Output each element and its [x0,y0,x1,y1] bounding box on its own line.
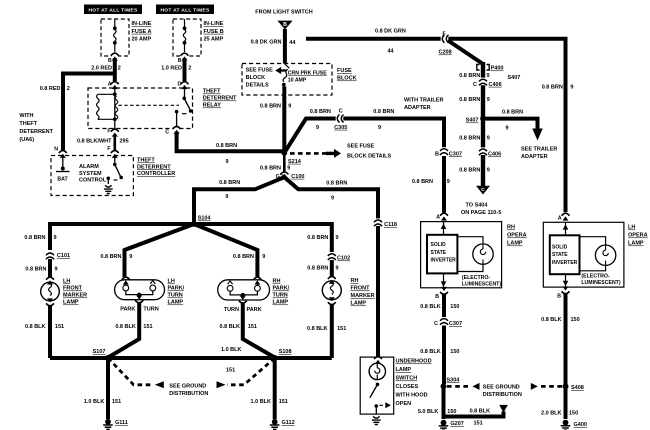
connector C100 grommet G2 [276,172,305,180]
svg-text:STATE: STATE [431,250,447,256]
svg-text:FROM LIGHT SWITCH: FROM LIGHT SWITCH [255,10,312,16]
svg-text:151: 151 [226,368,235,374]
svg-text:RH: RH [507,225,515,231]
svg-text:9: 9 [54,235,57,241]
connector C118 [374,218,397,228]
svg-text:0.8 BRN: 0.8 BRN [373,109,394,115]
label SEE FUSE BLOCK DETAILS (at S214) [347,144,392,160]
svg-text:0.8 BRN: 0.8 BRN [219,180,240,186]
svg-text:2: 2 [188,66,191,72]
svg-text:THEFT: THEFT [19,121,37,127]
svg-text:SWITCH: SWITCH [396,376,418,382]
svg-text:G112: G112 [282,420,295,426]
ground G400 [561,420,587,430]
svg-text:25 AMP: 25 AMP [204,37,224,43]
svg-text:9: 9 [55,267,58,273]
wire C100 right branch to C118 (0.8 BRN) [284,177,378,220]
crn prk fuse element in fuse block [282,64,289,87]
svg-text:2: 2 [67,86,70,92]
terminal bottom of RH park/turn [239,296,247,303]
svg-text:OPERA: OPERA [628,233,648,239]
label WITH THEFT DETERRENT (UA6) [19,113,53,143]
wire RH park/turn to S108 (0.8 BLK) [243,302,275,357]
svg-text:WITH HOOD: WITH HOOD [396,393,428,399]
label 0.8 BRN 9 (right edge run) [542,84,574,90]
wire C208 diagonal to P400 [448,41,483,65]
label 0.8 BRN 9 (C100 to C118) [326,180,347,201]
svg-text:ALARM: ALARM [79,164,99,170]
theft deterrent relay dashed box [88,88,193,129]
in-line fuse B dashed box [173,19,201,56]
battery feed BAT inside controller [56,156,70,183]
svg-text:B: B [435,151,439,157]
wire fuse B to node D (1.0 RED) [183,58,187,81]
svg-text:0.8 BRN: 0.8 BRN [233,254,254,260]
wire C307-B down to RH opera lamp A [442,156,446,213]
svg-text:C406: C406 [489,82,502,88]
svg-text:S107: S107 [93,349,106,355]
hot at all times box 1 [84,5,142,15]
svg-text:C100: C100 [291,174,304,180]
label SEE GROUND DISTRIBUTION (right) [483,385,522,399]
svg-text:9: 9 [129,254,132,260]
wire S104 to RH park/turn lamp (0.8 BRN) [194,224,257,277]
RH opera lamp box [421,222,502,288]
svg-text:CRN PRK FUSE: CRN PRK FUSE [288,70,327,76]
label PARK TURN (LH) [120,307,158,313]
svg-text:OPEN: OPEN [396,401,412,407]
LH opera feed arrow inside box [563,223,569,236]
svg-text:A: A [108,82,112,88]
svg-text:SEE FUSE: SEE FUSE [347,144,375,150]
wire G207 branch right (0.8 BLK 151) [444,412,504,417]
svg-text:151: 151 [55,324,64,330]
label 5.0 BLK 150 (S304 to G207) [418,409,457,415]
RH solid state inverter [427,235,457,274]
svg-text:C307: C307 [449,151,462,157]
terminal F of relay [107,129,118,137]
svg-text:9: 9 [225,194,228,200]
svg-text:LAMP: LAMP [507,241,523,247]
svg-text:A: A [558,216,562,222]
off-page arrow C to S404 [476,186,490,195]
svg-text:5.0 BLK: 5.0 BLK [418,409,439,415]
LH opera bottom arrow inside box [563,274,569,287]
svg-text:0.8 BRN: 0.8 BRN [459,135,480,141]
svg-text:LH: LH [168,279,175,285]
label 0.8 BLK 151 [25,324,64,330]
svg-text:INVERTER: INVERTER [431,258,457,264]
label 0.8 BLK 150 (B to C307) [420,304,459,310]
svg-text:9: 9 [487,73,490,79]
connector C101 [46,251,70,259]
label 0.8 RED 2 [40,86,70,92]
svg-text:2.0 RED: 2.0 RED [91,66,112,72]
label 0.8 BRN 9 (S407 branch) [502,110,523,132]
splice S407 [466,116,486,124]
svg-text:295: 295 [120,138,129,144]
svg-text:BLOCK DETAILS: BLOCK DETAILS [347,154,392,160]
wire S108 to G112 (1.0 BLK) [273,358,277,419]
svg-text:G207: G207 [450,421,463,427]
svg-text:9: 9 [487,135,490,141]
label 1.0 BLK 151 (S107 to G111) [84,399,121,405]
svg-text:THEFT: THEFT [203,89,221,95]
label TO S404 ON PAGE 110-5 [461,203,501,217]
svg-text:B: B [283,22,287,28]
svg-text:9: 9 [506,126,509,132]
in-line fuse B element [183,19,187,52]
wire LH front marker to ground bus (0.8 BLK) [48,305,52,358]
svg-text:UNDERHOOD: UNDERHOOD [396,359,432,365]
wire B to fuse block (0.8 DK GRN) [283,29,287,64]
svg-text:SEE GROUND: SEE GROUND [169,383,206,389]
label WITH TRAILER ADAPTER [404,98,443,112]
off-page arrow B from light switch [277,21,292,30]
svg-text:0.8 BLK: 0.8 BLK [420,349,441,355]
wire LH park/turn to S107 (0.8 BLK) [108,302,139,358]
wire RH opera B to C307-C (0.8 BLK) [442,294,446,319]
svg-text:S108: S108 [279,349,292,355]
ground G112 [270,419,295,430]
label 0.8 BLK 151 (LH park to S107) [115,324,152,330]
wire C102 to RH front marker (0.8 BRN) [330,260,334,277]
svg-text:C208: C208 [439,50,452,56]
svg-text:SEE TRAILER: SEE TRAILER [521,147,557,153]
svg-text:RH: RH [351,278,359,284]
wire S408 to G400 (2.0 BLK) [564,386,568,419]
label 0.8 BRN 9 (bus to C102) [307,235,338,241]
label CRN PRK FUSE 10 AMP [288,70,327,83]
svg-text:LAMP: LAMP [351,301,367,307]
label 0.8 BRN 9 (C101 to lamp) [25,267,57,273]
svg-text:C406: C406 [488,151,501,157]
svg-text:151: 151 [248,324,257,330]
connector C307 pin C [434,317,462,327]
svg-text:ADAPTER: ADAPTER [521,154,548,160]
svg-text:FRONT: FRONT [351,286,371,292]
wire S214 to C305 trailer branch (0.8 BRN) [284,119,444,153]
svg-text:IN-LINE: IN-LINE [132,21,152,27]
svg-text:S407: S407 [508,75,521,81]
svg-text:0.8 BRN: 0.8 BRN [459,168,480,174]
terminal A of LH opera lamp [558,213,570,221]
RH front marker lamp [322,281,341,300]
terminal N of controller [54,147,66,158]
svg-text:RH: RH [273,279,281,285]
svg-text:LAMP: LAMP [168,300,184,306]
label 0.8 BRN 9 (C102 to lamp) [307,265,338,271]
label 2.0 BLK 150 (S408 to G400) [541,411,578,417]
svg-text:44: 44 [289,40,296,46]
label 0.8 BRN 9 (relay C to S214) [216,143,237,165]
svg-text:PARK: PARK [120,307,135,313]
svg-text:0.8 BLK: 0.8 BLK [25,324,46,330]
svg-text:150: 150 [450,304,459,310]
label SEE FUSE BLOCK DETAILS (in box) [246,68,274,89]
relay coil [97,88,118,129]
relay actuation dashed link [119,104,180,106]
svg-text:0.8 BLK: 0.8 BLK [420,304,441,310]
svg-text:1.0 BLK: 1.0 BLK [251,399,272,405]
svg-text:0.8 BRN: 0.8 BRN [24,235,45,241]
svg-text:LH: LH [63,279,70,285]
label 0.8 BRN 9 (to RH park lamp) [233,254,265,260]
wire relay C to S214 (0.8 BRN) [177,132,285,152]
wire LH opera B to S408 (0.8 BLK) [564,293,568,384]
svg-text:B: B [178,58,182,64]
svg-text:B: B [557,294,561,300]
svg-text:C: C [481,187,485,193]
svg-text:D: D [178,82,182,88]
arrow to see fuse block details [275,67,286,74]
label in-line fuse B 25 amp [204,21,224,43]
svg-text:0.8 BRN: 0.8 BRN [412,179,433,185]
dashed arrow S108 to see ground distribution [217,358,275,388]
svg-text:G111: G111 [115,420,128,426]
svg-text:0.8 BRN: 0.8 BRN [100,254,121,260]
svg-text:C: C [434,321,438,327]
label THEFT DETERRENT RELAY [203,89,237,109]
svg-text:2: 2 [118,66,121,72]
label 0.8 BRN 9 (C406 to S404) [459,168,490,174]
svg-text:151: 151 [143,324,152,330]
svg-text:INVERTER: INVERTER [552,260,578,266]
label LH PARK TURN LAMP [168,279,185,306]
underhood lamp bulb [369,363,385,379]
svg-text:FRONT: FRONT [63,286,83,292]
svg-text:1.0 BLK: 1.0 BLK [221,347,242,353]
svg-text:9: 9 [226,159,229,165]
svg-text:LAMP: LAMP [63,300,79,306]
splice S108 [272,349,292,361]
svg-text:RELAY: RELAY [203,103,221,109]
svg-text:CONTROLLER: CONTROLLER [137,171,175,177]
label 0.8 BRN 9 (fuse block to S214) [260,104,291,110]
svg-text:TO S404: TO S404 [466,203,489,209]
svg-text:DETERRENT: DETERRENT [19,129,53,135]
label 0.8 BLK 150 (C307 to S304) [420,349,459,355]
svg-text:1.0 BLK: 1.0 BLK [84,399,105,405]
svg-text:TURN: TURN [224,307,239,313]
svg-text:0.8 BLK: 0.8 BLK [470,409,491,415]
connector P400 brackets [477,65,504,72]
svg-text:THEFT: THEFT [137,158,155,164]
svg-text:DETAILS: DETAILS [246,83,269,89]
splice S408 [563,383,584,391]
svg-text:44: 44 [388,49,395,55]
svg-text:151: 151 [279,399,288,405]
svg-text:C101: C101 [57,253,70,259]
svg-text:FUSE: FUSE [337,68,352,74]
underhood switch blade [370,383,391,415]
label 1.0 BLK 151 (S108 to G112) [251,399,288,405]
svg-text:FUSE A: FUSE A [132,29,152,35]
terminal top of LH front marker [46,277,54,284]
wire bus S104 left to LH marker drop [50,224,194,250]
svg-text:9: 9 [336,265,339,271]
svg-text:DETERRENT: DETERRENT [203,96,237,102]
label 0.8 BRN 9 (C406 to S407) [459,97,490,103]
label 0.8 BLK 150 (LH opera ground) [541,317,580,323]
splice S107 [93,349,111,361]
svg-text:C: C [473,82,477,88]
wire fuse block to S214 (0.8 BRN) [282,87,286,154]
svg-text:S104: S104 [198,216,212,222]
off-page arrow above branch [499,405,508,413]
label 0.8 BLK 151 (RH marker ground) [307,326,346,332]
svg-text:HOT AT ALL TIMES: HOT AT ALL TIMES [88,8,137,14]
label 0.8 BRN 9 (C307 to RH opera) [412,179,450,185]
relay switch [175,88,193,129]
svg-text:0.8 RED: 0.8 RED [40,86,61,92]
svg-text:HOT AT ALL TIMES: HOT AT ALL TIMES [160,8,209,14]
in-line fuse A element [113,19,117,52]
svg-text:0.8 BRN: 0.8 BRN [459,73,480,79]
label 0.8 BRN 9 (S407 to C406 lower) [459,135,490,141]
connector C102 [328,252,350,261]
svg-text:150: 150 [450,349,459,355]
wire S304 to G207 (5.0 BLK) [442,386,446,419]
svg-text:C: C [165,130,169,136]
svg-text:0.8 BLK: 0.8 BLK [115,324,136,330]
label 0.8 BRN 9 (S214 to C100) [260,165,290,171]
svg-text:9: 9 [336,235,339,241]
svg-text:N: N [54,147,58,153]
fuse A terminal B [108,53,119,64]
svg-text:ADAPTER: ADAPTER [404,105,431,111]
connector C307 pin B [435,147,462,157]
svg-text:S304: S304 [447,377,461,383]
svg-text:CONTROL: CONTROL [79,177,107,183]
svg-text:151: 151 [474,421,483,427]
RH electroluminescent lamp bulb [457,237,493,272]
svg-text:B: B [108,58,112,64]
svg-text:151: 151 [337,326,346,332]
svg-text:150: 150 [571,317,580,323]
wire S107 to G111 (1.0 BLK) [106,358,110,419]
LH electroluminescent lamp bulb [580,237,616,271]
svg-text:TURN: TURN [168,293,183,299]
wire bus S104 right to RH marker drop (0.8 BRN) [194,224,332,252]
underhood lamp switch box [360,357,394,414]
svg-text:C307: C307 [449,321,462,327]
fuse B terminal B [178,53,189,64]
wire C100 left branch to S104 (0.8 BRN) [194,177,284,222]
svg-text:MARKER: MARKER [351,293,375,299]
terminal B of RH opera lamp [435,287,448,300]
label SEE GROUND DISTRIBUTION (left) [169,383,208,397]
label RH OPERA LAMP [507,225,527,247]
svg-text:FUSE B: FUSE B [204,29,224,35]
svg-text:9: 9 [287,166,290,172]
svg-text:9: 9 [487,168,490,174]
svg-text:9: 9 [331,196,334,202]
label FUSE BLOCK [337,68,357,82]
alarm system control dashed box [51,156,133,196]
svg-text:SEE FUSE: SEE FUSE [246,68,274,74]
svg-text:9: 9 [316,125,319,131]
svg-text:WITH: WITH [19,113,33,119]
splice S304 [441,377,461,389]
ground symbol under underhood switch [372,416,381,424]
svg-text:CLOSES: CLOSES [396,384,419,390]
svg-text:B: B [435,294,439,300]
connector C406 pin C [473,78,502,88]
label (ELECTRO-LUMINESCENT) RH [462,275,501,288]
svg-text:0.8 BRN: 0.8 BRN [307,265,328,271]
wire ground bus S107 to S108 (1.0 BLK) [50,356,332,360]
label 2.0 RED 2 [91,66,121,72]
svg-text:0.8 BRN: 0.8 BRN [502,110,523,116]
svg-text:TURN: TURN [143,307,158,313]
svg-text:LUMINESCENT): LUMINESCENT) [581,280,620,286]
svg-text:LAMP: LAMP [396,367,412,373]
svg-text:A: A [436,215,440,221]
terminal C of relay [165,127,180,136]
terminal B of LH opera lamp [557,286,569,299]
label 1.0 RED 2 [161,66,191,72]
svg-text:9: 9 [378,125,381,131]
svg-text:DISTRIBUTION: DISTRIBUTION [169,391,208,397]
svg-text:150: 150 [447,409,456,415]
svg-text:BLOCK: BLOCK [337,76,357,82]
svg-text:S407: S407 [466,118,479,124]
svg-text:1.0 RED: 1.0 RED [161,66,182,72]
terminal F of controller [107,146,118,158]
svg-text:(UA6): (UA6) [19,137,34,143]
svg-text:0.8 BLK/WHT: 0.8 BLK/WHT [77,138,112,144]
label 1.0 BLK 151 (ground bus) [221,347,242,374]
svg-text:STATE: STATE [552,252,568,258]
svg-text:0.8 BRN: 0.8 BRN [307,235,328,241]
LH park/turn lamp assembly [115,277,165,299]
terminal top of underhood switch [374,357,382,364]
svg-text:2.0 BLK: 2.0 BLK [541,411,562,417]
label RH PARK TURN LAMP [273,279,290,306]
splice S214 [281,150,301,165]
svg-text:151: 151 [112,399,121,405]
wire relay F to controller F (0.8 BLK/WHT) [114,134,117,152]
svg-text:S214: S214 [288,159,302,165]
label LH FRONT MARKER LAMP [63,279,87,306]
label 0.8 DK GRN 44 (top run) [375,29,406,55]
wire C307-C to S304 (0.8 BLK) [442,326,446,385]
controller switch to ground [107,156,123,184]
label 0.8 BLK 151 (branch) [470,409,491,427]
wire S407 branch to trailer adapter arrow (0.8 BRN) [483,119,538,129]
svg-text:BLOCK: BLOCK [246,75,266,81]
svg-text:0.8 BRN: 0.8 BRN [216,143,237,149]
svg-text:SEE GROUND: SEE GROUND [483,385,520,391]
svg-text:LH: LH [628,225,635,231]
svg-text:9: 9 [447,179,450,185]
dashed arrow S214 to see fuse block details [290,149,341,158]
svg-text:G400: G400 [574,422,587,428]
label UNDERHOOD LAMP SWITCH CLOSES WITH HOOD OPEN [396,359,432,408]
wire RH front marker to ground bus (0.8 BLK) [330,304,334,358]
svg-text:0.8 BRN: 0.8 BRN [326,180,347,186]
in-line fuse A dashed box [101,19,129,56]
hot at all times box 2 [156,5,214,15]
svg-text:10 AMP: 10 AMP [288,77,307,83]
label THEFT DETERRENT CONTROLLER [137,158,175,178]
svg-text:C102: C102 [337,256,350,262]
terminal D of relay [178,82,189,90]
wire branch left from A (0.8 RED) [63,74,115,151]
svg-text:0.8 DK GRN: 0.8 DK GRN [375,29,406,35]
fuse block dashed box [242,64,332,96]
